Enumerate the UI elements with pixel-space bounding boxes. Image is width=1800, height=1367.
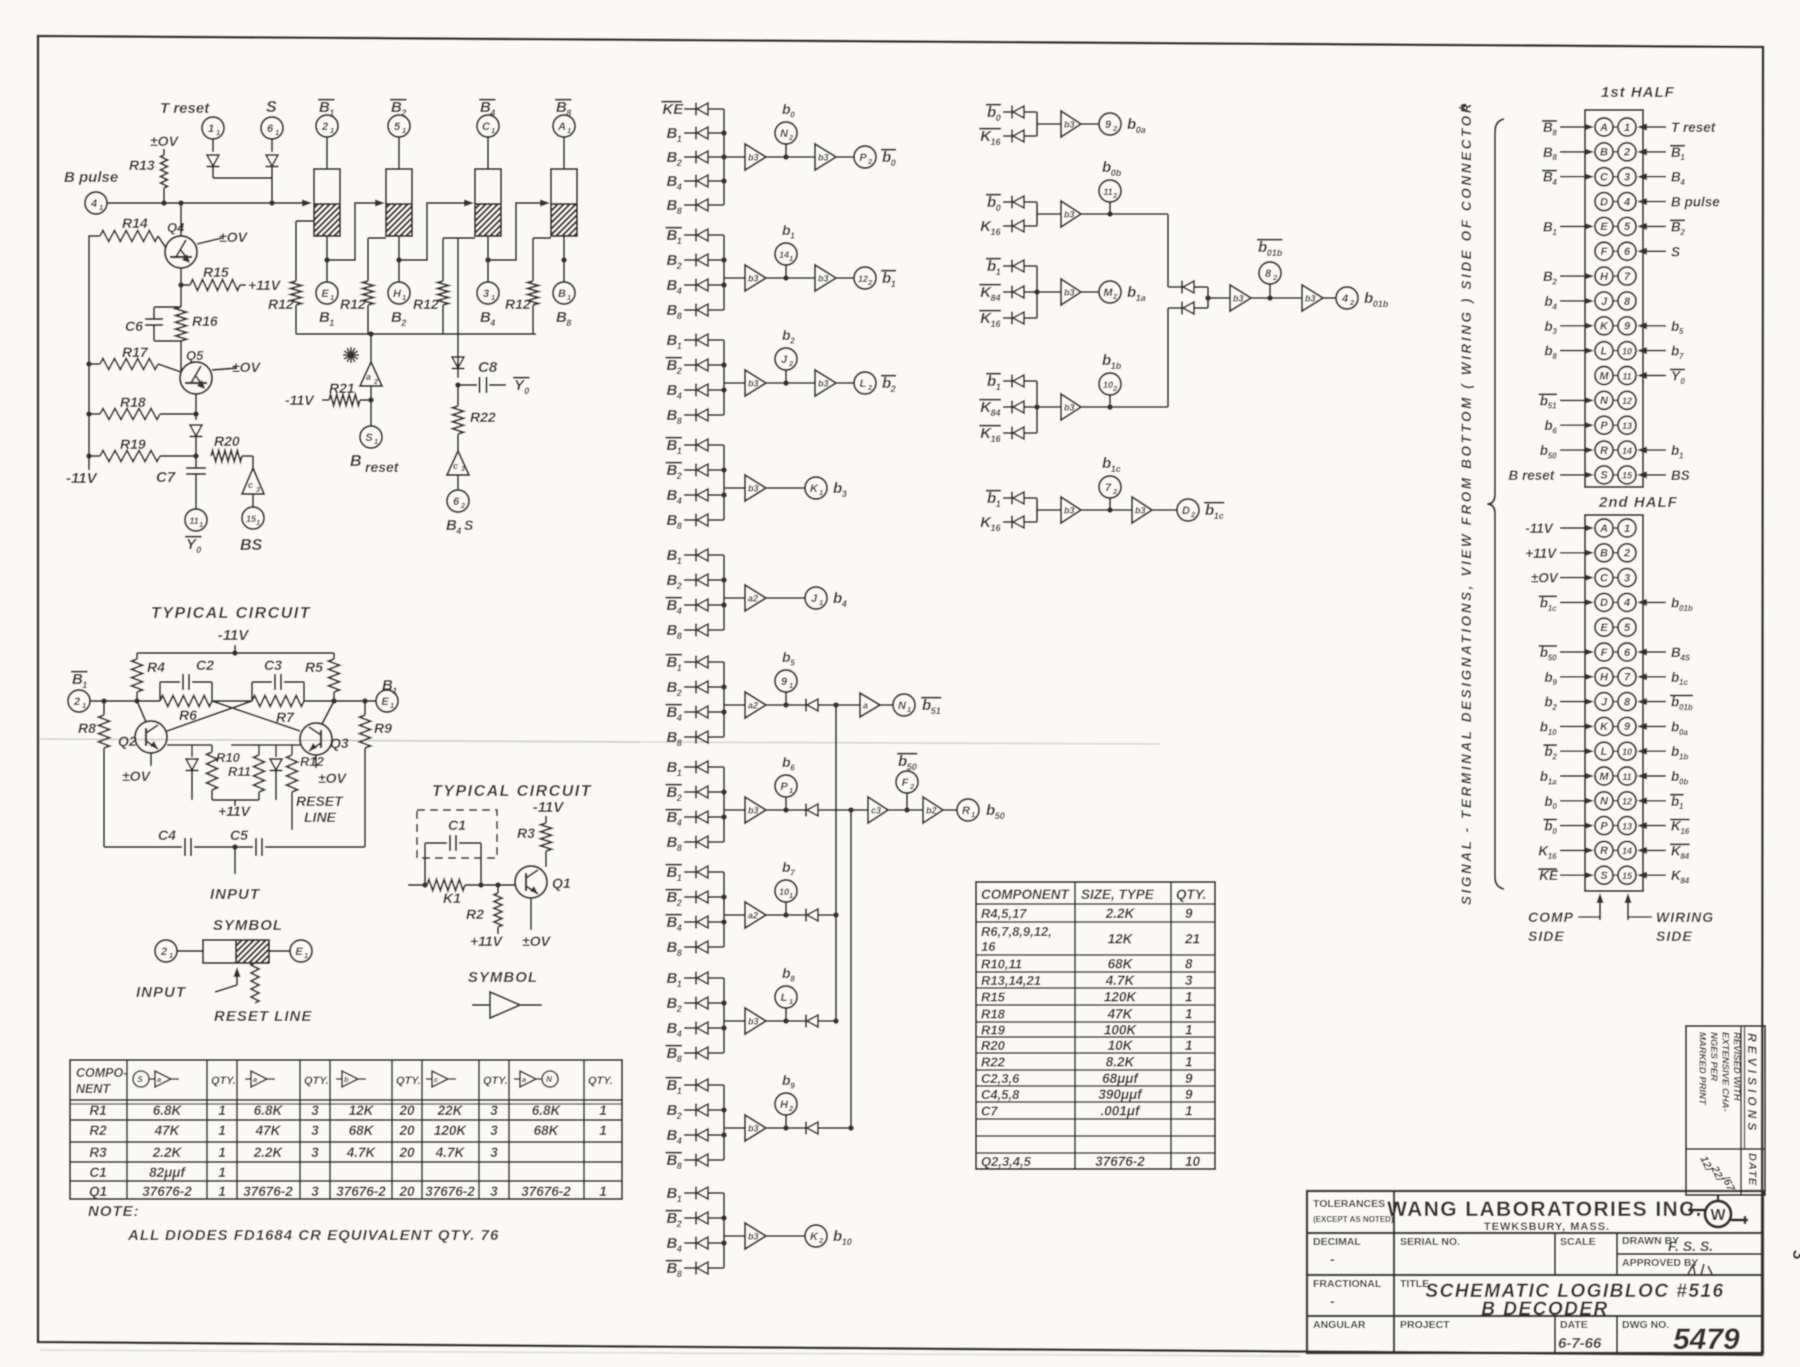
svg-text:1st HALF: 1st HALF [1601, 84, 1675, 101]
svg-text:D: D [1182, 505, 1190, 517]
svg-text:3: 3 [311, 1103, 319, 1118]
svg-text:N: N [546, 1075, 552, 1084]
svg-text:2: 2 [73, 696, 80, 708]
svg-text:C2,3,6: C2,3,6 [981, 1071, 1020, 1086]
svg-text:b: b [1544, 744, 1552, 759]
svg-text:8: 8 [677, 416, 682, 426]
svg-text:0a: 0a [1679, 728, 1688, 737]
svg-text:M: M [1103, 287, 1113, 299]
svg-text:1c: 1c [1214, 511, 1224, 521]
svg-text:L: L [860, 378, 867, 390]
svg-text:1: 1 [789, 786, 793, 795]
svg-text:R: R [1600, 445, 1608, 457]
svg-text:1: 1 [1185, 1007, 1193, 1022]
svg-text:RESET: RESET [296, 793, 344, 809]
svg-text:KE: KE [662, 101, 684, 118]
svg-text:2: 2 [789, 337, 795, 346]
svg-text:8: 8 [677, 206, 682, 216]
svg-text:1: 1 [491, 126, 495, 135]
svg-text:1: 1 [677, 341, 682, 351]
svg-text:1: 1 [567, 293, 571, 302]
svg-text:-11V: -11V [218, 627, 251, 644]
svg-text:+11V: +11V [470, 933, 504, 949]
svg-text:10: 10 [1622, 747, 1632, 757]
svg-text:b: b [987, 258, 996, 275]
svg-text:8: 8 [677, 1161, 682, 1171]
svg-text:b: b [1102, 352, 1111, 369]
svg-text:(EXCEPT AS NOTED): (EXCEPT AS NOTED) [1313, 1215, 1394, 1224]
svg-text:b: b [882, 375, 891, 392]
svg-text:C: C [482, 121, 491, 133]
svg-text:3: 3 [1552, 327, 1557, 336]
svg-text:1: 1 [1679, 451, 1684, 460]
svg-text:b: b [1671, 670, 1679, 685]
svg-text:1: 1 [790, 232, 795, 241]
svg-text:1: 1 [374, 437, 378, 446]
svg-text:0b: 0b [1679, 777, 1688, 786]
svg-text:±OV: ±OV [232, 359, 262, 375]
svg-text:5: 5 [394, 121, 401, 133]
svg-text:2: 2 [1272, 273, 1278, 282]
svg-text:8: 8 [1552, 352, 1557, 361]
svg-text:2: 2 [321, 121, 328, 133]
svg-text:DATE: DATE [1560, 1319, 1588, 1331]
svg-text:R16: R16 [192, 313, 218, 329]
svg-text:8: 8 [677, 843, 682, 853]
svg-text:+11V: +11V [248, 277, 282, 293]
svg-text:1: 1 [199, 520, 203, 529]
svg-text:b3: b3 [748, 1017, 759, 1027]
svg-text:L: L [1601, 345, 1608, 357]
svg-text:6: 6 [1624, 246, 1631, 258]
svg-text:SIGNAL - TERMINAL DESIGNATIONS: SIGNAL - TERMINAL DESIGNATIONS, VIEW FRO… [1459, 101, 1474, 905]
svg-text:16: 16 [991, 137, 1002, 147]
svg-text:P: P [859, 152, 867, 164]
svg-text:20: 20 [398, 1103, 415, 1118]
svg-text:R22: R22 [470, 409, 496, 425]
svg-text:b3: b3 [1305, 294, 1316, 304]
svg-text:1: 1 [218, 1145, 226, 1160]
svg-text:1: 1 [891, 279, 896, 289]
svg-text:11: 11 [189, 516, 198, 526]
svg-text:12: 12 [858, 274, 868, 284]
svg-text:3: 3 [490, 1103, 498, 1118]
svg-text:NENT: NENT [76, 1082, 111, 1096]
svg-text:4: 4 [676, 606, 682, 616]
svg-text:K1: K1 [443, 890, 461, 906]
svg-text:A: A [1599, 122, 1608, 134]
svg-text:84: 84 [1680, 852, 1689, 861]
svg-text:1: 1 [677, 1086, 682, 1096]
svg-text:REVISIONS: REVISIONS [1745, 1033, 1759, 1134]
svg-text:±OV: ±OV [1531, 571, 1559, 586]
svg-text:A: A [557, 121, 566, 133]
svg-text:B: B [350, 453, 362, 470]
svg-text:b: b [833, 480, 842, 497]
svg-text:B: B [1600, 147, 1608, 159]
svg-text:R21: R21 [329, 380, 355, 396]
svg-text:P: P [1600, 420, 1608, 432]
svg-text:2: 2 [1112, 384, 1118, 393]
svg-text:84: 84 [1680, 877, 1689, 886]
svg-text:1: 1 [677, 1194, 682, 1204]
svg-text:b: b [1540, 393, 1548, 408]
svg-text:2.2K: 2.2K [253, 1145, 284, 1160]
svg-text:H: H [1600, 271, 1609, 283]
svg-text:8: 8 [1552, 153, 1557, 162]
svg-text:R20: R20 [214, 433, 240, 449]
svg-text:FRACTIONAL: FRACTIONAL [1313, 1278, 1382, 1290]
svg-text:7: 7 [790, 869, 795, 878]
svg-text:S: S [1671, 244, 1680, 259]
svg-text:A: A [1599, 523, 1608, 535]
svg-text:37676-2: 37676-2 [142, 1184, 192, 1199]
svg-text:1: 1 [677, 556, 682, 566]
svg-text:b3: b3 [818, 274, 829, 284]
svg-text:M: M [1599, 771, 1609, 783]
svg-text:4: 4 [676, 1244, 682, 1254]
svg-text:R7: R7 [276, 709, 295, 725]
svg-text:16: 16 [991, 523, 1002, 533]
svg-text:2: 2 [1112, 124, 1118, 133]
svg-text:F: F [1601, 246, 1608, 258]
svg-text:Q4: Q4 [167, 220, 185, 235]
svg-text:3: 3 [842, 489, 847, 499]
svg-text:a2: a2 [748, 911, 758, 921]
svg-text:DATE: DATE [1746, 1153, 1758, 1186]
svg-text:R4,5,17: R4,5,17 [981, 906, 1027, 921]
svg-text:-: - [1330, 1251, 1335, 1267]
svg-text:b: b [833, 590, 842, 607]
svg-text:0: 0 [524, 386, 529, 396]
svg-text:2: 2 [676, 1004, 682, 1014]
svg-text:9: 9 [1185, 906, 1193, 921]
svg-text:68K: 68K [534, 1123, 560, 1138]
svg-text:4: 4 [676, 496, 682, 506]
svg-text:1: 1 [330, 293, 334, 302]
svg-text:±OV: ±OV [318, 770, 348, 786]
svg-text:10: 10 [1103, 380, 1113, 390]
svg-text:SERIAL NO.: SERIAL NO. [1400, 1236, 1460, 1248]
svg-text:±OV: ±OV [150, 133, 180, 149]
svg-text:1: 1 [275, 128, 279, 137]
svg-text:R14: R14 [122, 215, 148, 231]
svg-text:4: 4 [455, 526, 461, 536]
svg-text:-11V: -11V [66, 470, 99, 487]
svg-text:2: 2 [1623, 147, 1630, 159]
svg-text:15: 15 [1622, 471, 1633, 481]
svg-text:R18: R18 [981, 1007, 1006, 1022]
svg-text:C2: C2 [196, 657, 214, 673]
svg-text:9: 9 [1624, 721, 1631, 733]
svg-text:1: 1 [329, 318, 334, 328]
svg-text:R10,11: R10,11 [981, 957, 1022, 972]
svg-text:7: 7 [1105, 482, 1112, 494]
svg-text:20: 20 [398, 1145, 415, 1160]
svg-text:C7: C7 [981, 1104, 998, 1119]
svg-text:R8: R8 [78, 720, 96, 736]
svg-text:b: b [833, 1228, 842, 1245]
svg-text:R22: R22 [981, 1055, 1006, 1070]
svg-text:01b: 01b [1679, 703, 1693, 712]
svg-text:RESET LINE: RESET LINE [214, 1008, 312, 1025]
svg-text:a: a [253, 1075, 257, 1084]
svg-text:KE: KE [1539, 868, 1559, 883]
svg-text:R18: R18 [120, 394, 146, 410]
svg-text:10: 10 [1185, 1154, 1201, 1169]
svg-text:SIZE, TYPE: SIZE, TYPE [1081, 887, 1155, 902]
svg-text:4: 4 [489, 318, 495, 328]
svg-text:0a: 0a [1136, 125, 1146, 135]
svg-text:1: 1 [99, 203, 103, 212]
svg-text:11: 11 [1622, 371, 1631, 381]
svg-text:R3: R3 [517, 825, 535, 841]
svg-text:2: 2 [676, 898, 682, 908]
svg-text:1: 1 [677, 236, 682, 246]
svg-text:ANGULAR: ANGULAR [1313, 1319, 1366, 1331]
svg-text:9: 9 [1552, 678, 1557, 687]
svg-text:R13,14,21: R13,14,21 [981, 973, 1041, 988]
svg-text:QTY.: QTY. [1176, 887, 1206, 902]
svg-text:2: 2 [1112, 292, 1118, 301]
svg-text:b3: b3 [748, 274, 759, 284]
svg-text:b: b [1258, 239, 1267, 256]
svg-text:37676-2: 37676-2 [336, 1184, 386, 1199]
svg-text:J: J [1601, 696, 1608, 708]
svg-text:51: 51 [1548, 402, 1557, 411]
svg-text:6: 6 [1624, 647, 1631, 659]
svg-text:1a: 1a [1548, 777, 1557, 786]
svg-text:N: N [1600, 395, 1609, 407]
svg-text:2: 2 [373, 379, 378, 386]
svg-text:b3: b3 [818, 153, 829, 163]
svg-text:68K: 68K [349, 1123, 375, 1138]
svg-text:SCALE: SCALE [1560, 1236, 1596, 1248]
svg-text:F: F [1601, 647, 1608, 659]
svg-text:100K: 100K [1104, 1023, 1138, 1038]
svg-text:8: 8 [677, 948, 682, 958]
svg-text:68μμf: 68μμf [1102, 1071, 1139, 1086]
svg-text:LINE: LINE [304, 809, 337, 825]
svg-text:Q5: Q5 [186, 348, 204, 363]
svg-text:16: 16 [991, 434, 1002, 444]
svg-text:P: P [1600, 820, 1608, 832]
svg-text:50: 50 [1548, 653, 1557, 662]
svg-text:K: K [810, 483, 819, 495]
svg-text:APPROVED BY: APPROVED BY [1622, 1257, 1698, 1269]
svg-text:8: 8 [677, 631, 682, 641]
svg-text:1a: 1a [1136, 293, 1146, 303]
svg-text:COMPO-: COMPO- [76, 1066, 127, 1080]
svg-text:b: b [987, 104, 996, 121]
svg-text:1: 1 [907, 705, 911, 714]
svg-text:4: 4 [676, 286, 682, 296]
svg-text:1b: 1b [1111, 361, 1122, 371]
svg-text:50: 50 [995, 811, 1005, 821]
svg-text:R: R [1600, 845, 1608, 857]
svg-text:b3: b3 [818, 379, 829, 389]
svg-text:3: 3 [490, 1123, 498, 1138]
svg-text:9: 9 [790, 1082, 795, 1091]
svg-text:COMPONENT: COMPONENT [981, 887, 1071, 902]
svg-text:47K: 47K [154, 1123, 181, 1138]
svg-text:1: 1 [599, 1184, 607, 1199]
svg-text:0: 0 [790, 111, 795, 120]
svg-text:8: 8 [1552, 128, 1557, 137]
svg-text:R11: R11 [228, 764, 251, 779]
svg-text:8: 8 [677, 1054, 682, 1064]
svg-text:C3: C3 [264, 657, 282, 673]
svg-text:a2: a2 [748, 594, 758, 604]
svg-text:0: 0 [996, 203, 1001, 213]
svg-text:b: b [1544, 319, 1552, 334]
svg-text:1: 1 [677, 134, 682, 144]
svg-text:F. S. S.: F. S. S. [1668, 1238, 1713, 1254]
svg-text:R20: R20 [981, 1038, 1006, 1053]
svg-text:2nd HALF: 2nd HALF [1598, 494, 1678, 511]
svg-text:1: 1 [819, 488, 823, 497]
svg-text:MARKED PRINT: MARKED PRINT [1697, 1032, 1708, 1106]
svg-text:10: 10 [842, 1237, 852, 1247]
svg-text:1: 1 [402, 293, 406, 302]
svg-text:47K: 47K [255, 1123, 282, 1138]
svg-text:4S: 4S [1679, 653, 1690, 662]
svg-text:WANG LABORATORIES INC.: WANG LABORATORIES INC. [1387, 1198, 1703, 1221]
svg-text:37676-2: 37676-2 [425, 1184, 475, 1199]
svg-text:1: 1 [208, 123, 214, 135]
svg-text:R10: R10 [216, 750, 241, 765]
svg-text:13: 13 [1622, 821, 1632, 831]
svg-text:DWG NO.: DWG NO. [1622, 1319, 1669, 1331]
svg-text:2: 2 [788, 359, 794, 368]
svg-text:a: a [863, 701, 868, 711]
svg-text:8: 8 [790, 975, 795, 984]
svg-text:ALL DIODES FD1684 CR EQUIVALEN: ALL DIODES FD1684 CR EQUIVALENT QTY. 76 [127, 1227, 499, 1244]
svg-text:1: 1 [789, 681, 793, 690]
svg-text:Q3: Q3 [330, 735, 349, 751]
svg-text:2.2K: 2.2K [1105, 906, 1136, 921]
svg-text:QTY.: QTY. [483, 1075, 508, 1087]
svg-text:120K: 120K [1104, 990, 1138, 1005]
svg-text:b3: b3 [748, 806, 759, 816]
svg-text:E: E [1600, 622, 1608, 634]
svg-text:6-7-66: 6-7-66 [1558, 1335, 1602, 1352]
svg-text:INPUT: INPUT [210, 886, 261, 903]
svg-text:2: 2 [867, 278, 873, 287]
svg-text:1: 1 [329, 108, 334, 118]
svg-text:3: 3 [311, 1123, 319, 1138]
svg-text:b: b [1540, 443, 1548, 458]
svg-text:4: 4 [676, 182, 682, 192]
svg-text:R15: R15 [203, 264, 229, 280]
svg-text:1: 1 [402, 126, 406, 135]
svg-text:68K: 68K [1108, 957, 1134, 972]
svg-text:b: b [987, 373, 996, 390]
svg-text:0: 0 [1552, 802, 1557, 811]
svg-text:b: b [1544, 294, 1552, 309]
svg-text:6.8K: 6.8K [254, 1103, 284, 1118]
svg-text:12: 12 [1622, 797, 1632, 807]
svg-text:J: J [811, 593, 818, 605]
svg-text:b: b [1544, 344, 1552, 359]
svg-text:4: 4 [1623, 597, 1630, 609]
svg-text:B: B [1600, 548, 1608, 560]
svg-text:1: 1 [599, 1123, 607, 1138]
svg-text:b: b [1127, 116, 1136, 133]
svg-text:R13: R13 [129, 157, 155, 173]
svg-text:2: 2 [1551, 703, 1557, 712]
svg-text:c: c [248, 480, 253, 490]
svg-text:b3: b3 [1064, 403, 1075, 413]
svg-text:1: 1 [996, 267, 1001, 277]
svg-text:01b: 01b [1679, 604, 1693, 613]
svg-text:R2: R2 [466, 906, 484, 922]
svg-text:a: a [522, 1075, 526, 1084]
svg-text:5: 5 [1624, 221, 1631, 233]
svg-text:b3: b3 [748, 153, 759, 163]
svg-text:1: 1 [677, 873, 682, 883]
svg-text:QTY.: QTY. [211, 1075, 236, 1087]
svg-text:6.8K: 6.8K [532, 1103, 562, 1118]
svg-text:b3: b3 [748, 484, 759, 494]
svg-text:S: S [365, 432, 373, 444]
svg-text:b3: b3 [748, 1232, 759, 1242]
svg-text:5479: 5479 [1673, 1323, 1740, 1356]
svg-text:M: M [1599, 370, 1609, 382]
svg-text:1: 1 [677, 768, 682, 778]
svg-text:b: b [1544, 418, 1552, 433]
svg-text:-11V: -11V [285, 392, 315, 408]
svg-text:1: 1 [82, 680, 87, 690]
svg-text:0b: 0b [1111, 168, 1122, 178]
svg-text:2: 2 [867, 157, 873, 166]
svg-text:C: C [1600, 172, 1609, 184]
svg-text:b: b [1544, 819, 1552, 834]
svg-text:8.2K: 8.2K [1106, 1055, 1136, 1070]
svg-text:12K: 12K [349, 1103, 375, 1118]
svg-text:9: 9 [781, 676, 788, 688]
svg-text:37676-2: 37676-2 [521, 1184, 571, 1199]
svg-text:82μμf: 82μμf [149, 1165, 186, 1180]
svg-text:b: b [898, 753, 907, 770]
svg-text:2: 2 [1112, 487, 1118, 496]
svg-text:3: 3 [256, 487, 260, 494]
svg-text:B pulse: B pulse [1671, 195, 1720, 210]
svg-text:F: F [902, 777, 909, 789]
svg-text:3: 3 [483, 288, 489, 300]
svg-text:2: 2 [400, 318, 406, 328]
svg-text:1: 1 [304, 951, 308, 960]
svg-text:K: K [1600, 721, 1609, 733]
svg-text:b3: b3 [1064, 288, 1075, 298]
svg-text:2: 2 [676, 471, 682, 481]
svg-text:.001μf: .001μf [1101, 1104, 1141, 1119]
svg-text:2: 2 [788, 1104, 794, 1113]
svg-text:R2: R2 [89, 1123, 107, 1138]
svg-text:2: 2 [1551, 753, 1557, 762]
svg-text:b3: b3 [748, 379, 759, 389]
svg-text:*: * [1456, 104, 1476, 112]
svg-text:R4: R4 [147, 659, 165, 675]
svg-text:2: 2 [676, 158, 682, 168]
svg-text:P: P [780, 781, 788, 793]
svg-text:C4: C4 [158, 827, 176, 843]
svg-text:20: 20 [398, 1184, 415, 1199]
svg-text:1: 1 [1185, 1055, 1193, 1070]
svg-text:QTY.: QTY. [588, 1075, 613, 1087]
svg-text:WIRING: WIRING [1656, 909, 1714, 925]
svg-text:b3: b3 [1135, 506, 1146, 516]
